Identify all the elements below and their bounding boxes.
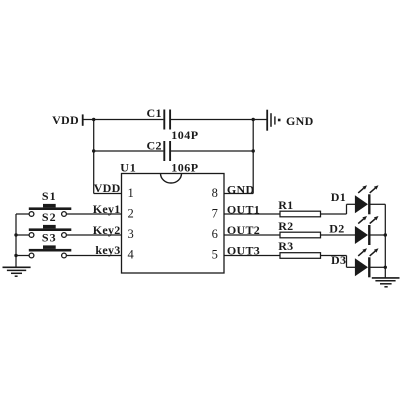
svg-text:1: 1	[127, 186, 133, 200]
svg-text:VDD: VDD	[52, 113, 79, 127]
svg-text:104P: 104P	[171, 128, 198, 142]
svg-text:7: 7	[212, 207, 218, 221]
svg-text:R3: R3	[278, 239, 293, 253]
svg-text:2: 2	[127, 207, 133, 221]
svg-text:R2: R2	[278, 219, 293, 233]
svg-text:3: 3	[127, 227, 133, 241]
svg-text:S3: S3	[42, 231, 57, 245]
svg-text:R1: R1	[278, 198, 293, 212]
svg-text:8: 8	[212, 186, 218, 200]
svg-text:GND: GND	[286, 114, 314, 128]
svg-text:VDD: VDD	[94, 181, 121, 195]
svg-text:4: 4	[127, 248, 134, 262]
svg-text:C2: C2	[147, 138, 162, 152]
svg-text:GND: GND	[227, 182, 255, 196]
svg-text:U1: U1	[120, 161, 136, 175]
svg-text:6: 6	[212, 227, 218, 241]
svg-text:D3: D3	[331, 253, 346, 267]
svg-text:5: 5	[212, 248, 218, 262]
svg-text:D2: D2	[329, 222, 344, 236]
svg-text:S1: S1	[42, 189, 57, 203]
svg-text:106P: 106P	[171, 160, 198, 174]
svg-text:S2: S2	[42, 210, 57, 224]
svg-text:C1: C1	[147, 106, 162, 120]
svg-text:D1: D1	[331, 190, 346, 204]
